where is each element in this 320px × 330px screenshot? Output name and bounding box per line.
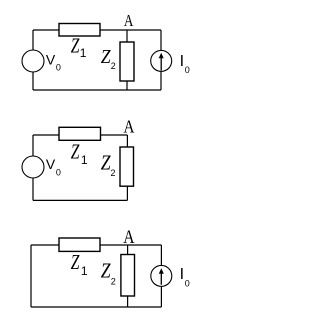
wire: right branch lower bbox=[160, 72, 162, 90]
svg-text:1: 1 bbox=[81, 264, 88, 278]
impedance Z1 (box) bbox=[59, 127, 101, 140]
impedance Z1 (box) bbox=[59, 24, 100, 37]
wire: bottom segment bbox=[33, 199, 127, 201]
wire: Z2 bottom stub bbox=[126, 186, 128, 200]
wire: right branch lower bbox=[160, 287, 162, 308]
svg-text:2: 2 bbox=[111, 61, 116, 71]
wire: top-left segment from V0 branch to Z1 bbox=[33, 134, 59, 136]
wire: right branch upper bbox=[160, 245, 162, 265]
svg-text:A: A bbox=[123, 226, 135, 248]
svg-text:0: 0 bbox=[56, 63, 61, 73]
impedance Z2 (box) bbox=[120, 42, 134, 81]
label I0 bbox=[180, 53, 190, 75]
svg-text:V: V bbox=[46, 51, 56, 67]
label Z1 bbox=[71, 140, 88, 167]
label I0 bbox=[180, 266, 190, 288]
wire: right branch upper bbox=[160, 30, 162, 50]
label V0 bbox=[46, 51, 61, 72]
wire: left branch upper bbox=[32, 30, 34, 50]
wire: left branch lower bbox=[32, 72, 34, 90]
svg-text:Z: Z bbox=[71, 251, 80, 274]
svg-text:0: 0 bbox=[185, 278, 190, 288]
wire: left branch lower bbox=[32, 178, 34, 200]
impedance Z2 (box) bbox=[121, 255, 135, 297]
wire: top segment from Z1 to node A bbox=[101, 134, 128, 136]
label Z1 bbox=[71, 34, 87, 60]
svg-text:Z: Z bbox=[71, 34, 80, 57]
label Z2 bbox=[101, 46, 116, 70]
wire: bottom segment bbox=[31, 306, 161, 308]
svg-text:Z: Z bbox=[101, 46, 111, 68]
svg-text:A: A bbox=[124, 116, 135, 137]
label V0 bbox=[46, 156, 61, 177]
node A stub bbox=[126, 30, 128, 42]
svg-text:Z: Z bbox=[71, 140, 80, 163]
svg-text:0: 0 bbox=[185, 65, 190, 75]
svg-text:2: 2 bbox=[111, 168, 116, 178]
voltage source V0 (circle) bbox=[22, 156, 44, 178]
label Z2 bbox=[101, 152, 116, 178]
current source I0 (circle with up arrow) bbox=[151, 50, 172, 71]
wire: bottom segment bbox=[33, 89, 161, 91]
wire: Z2 bottom stub bbox=[127, 296, 129, 307]
wire: top segment from Z1 to node A and to I0 branch bbox=[100, 29, 161, 31]
current source I0 (circle with up arrow) bbox=[151, 265, 172, 286]
svg-text:V: V bbox=[46, 156, 56, 172]
svg-text:I: I bbox=[180, 53, 184, 70]
wire: top-left segment from V0 branch to Z1 bbox=[33, 29, 59, 31]
impedance Z2 (box) bbox=[120, 147, 134, 186]
svg-text:1: 1 bbox=[80, 46, 87, 60]
label Z2 bbox=[101, 260, 116, 286]
svg-text:2: 2 bbox=[111, 276, 116, 286]
wire: left branch upper bbox=[32, 135, 34, 156]
svg-text:A: A bbox=[124, 13, 134, 31]
wire: Z2 bottom stub bbox=[126, 81, 128, 90]
wire: top-left segment to Z1 bbox=[31, 244, 59, 246]
wire: left branch (plain) bbox=[30, 245, 32, 307]
impedance Z1 (box) bbox=[59, 238, 100, 251]
svg-text:Z: Z bbox=[101, 152, 111, 175]
wire: top segment from Z1 to node A and to I0 branch bbox=[100, 244, 161, 246]
svg-text:1: 1 bbox=[81, 153, 88, 167]
node A stub bbox=[126, 135, 128, 147]
svg-text:Z: Z bbox=[101, 260, 111, 283]
voltage source V0 (circle) bbox=[22, 50, 44, 72]
svg-text:0: 0 bbox=[56, 168, 61, 178]
label Z1 bbox=[71, 251, 88, 278]
svg-text:I: I bbox=[180, 266, 184, 283]
node A stub bbox=[127, 245, 129, 255]
